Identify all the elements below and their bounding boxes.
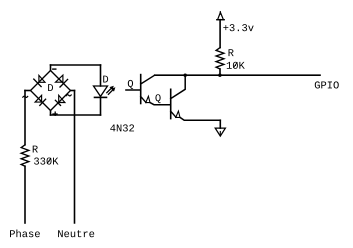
label Neutre	[58, 230, 94, 237]
label R (330K)	[33, 146, 38, 153]
Q1 base bar	[140, 75, 142, 104]
Q1 emitter arrow (open triangle)	[146, 96, 150, 102]
label D (LED)	[103, 76, 108, 83]
LED D of optocoupler (triangle)	[94, 86, 108, 96]
Q2 emitter exit wire	[180, 117, 220, 120]
label +3.3v	[223, 24, 253, 31]
resistor R1 330K (zigzag)	[21, 145, 29, 166]
slashed zero in 10K	[234, 63, 238, 68]
wire: top horizontal to LED	[51, 64, 101, 66]
label 4N32	[110, 124, 134, 131]
resistor R2 10K (zigzag)	[216, 48, 224, 69]
diode D4 bottom-right (triangle + bar)	[55, 95, 65, 105]
wire: LED cathode lead	[100, 97, 102, 115]
wire: Phase vertical	[24, 166, 26, 223]
diode D1 top-left (triangle + bar)	[34, 75, 45, 86]
slashed zero in 330K	[47, 158, 51, 163]
diode D2 top-right (triangle + bar)	[56, 75, 68, 87]
wire: bridge top stub	[50, 65, 52, 71]
tilde mark right AC terminal	[66, 95, 71, 96]
power +3.3v arrow	[217, 12, 224, 20]
wire: LED anode lead	[100, 65, 102, 86]
wire: resistor to rail	[219, 69, 221, 75]
wire: bridge bottom stub	[50, 111, 52, 116]
Q1 emitter diagonal	[141, 96, 146, 102]
wire: right AC stub	[71, 90, 75, 92]
LED cathode bar	[95, 96, 107, 98]
wire: bottom horizontal (bridge + to LED cathode)	[51, 114, 101, 116]
phototransistor Q1: base wire	[126, 89, 141, 91]
label Phase	[10, 230, 40, 238]
wire: Neutre vertical	[74, 91, 76, 224]
minus mark at bridge top	[53, 68, 56, 70]
label Q (Q1)	[128, 80, 133, 89]
Q2 emitter arrow (open triangle)	[176, 111, 180, 117]
LED emission arrow 2	[108, 87, 115, 94]
wire: left AC stub	[25, 90, 31, 92]
Q2 collector	[171, 75, 186, 98]
junction node (Q2 collector)	[184, 74, 187, 77]
label 10K	[227, 62, 245, 69]
Q1 collector	[141, 75, 155, 84]
LED emission arrow 1	[107, 86, 114, 93]
bridge rectifier D: diamond edges	[31, 71, 71, 111]
ground symbol	[215, 128, 225, 136]
ground stub	[219, 120, 221, 128]
Q1 emitter exit to Q2 base	[150, 103, 171, 105]
label Q (Q2)	[155, 94, 160, 103]
tilde mark left AC terminal	[23, 96, 28, 97]
phototransistor Q2: base bar	[170, 89, 172, 118]
label R (10K)	[229, 49, 234, 56]
junction node (pull-up)	[218, 74, 221, 77]
label 330K	[34, 158, 58, 165]
ground apex tick	[219, 132, 221, 136]
label GPIO	[315, 81, 339, 88]
diode D3 bottom-left (triangle + bar)	[35, 95, 46, 105]
wire: left vertical down to R	[24, 91, 26, 145]
label D (bridge)	[48, 84, 53, 91]
wire: 3.3v to resistor	[219, 20, 221, 48]
collector rail to GPIO	[155, 74, 320, 76]
plus mark at bridge bottom	[53, 112, 57, 115]
Q2 emitter diagonal	[171, 111, 176, 117]
